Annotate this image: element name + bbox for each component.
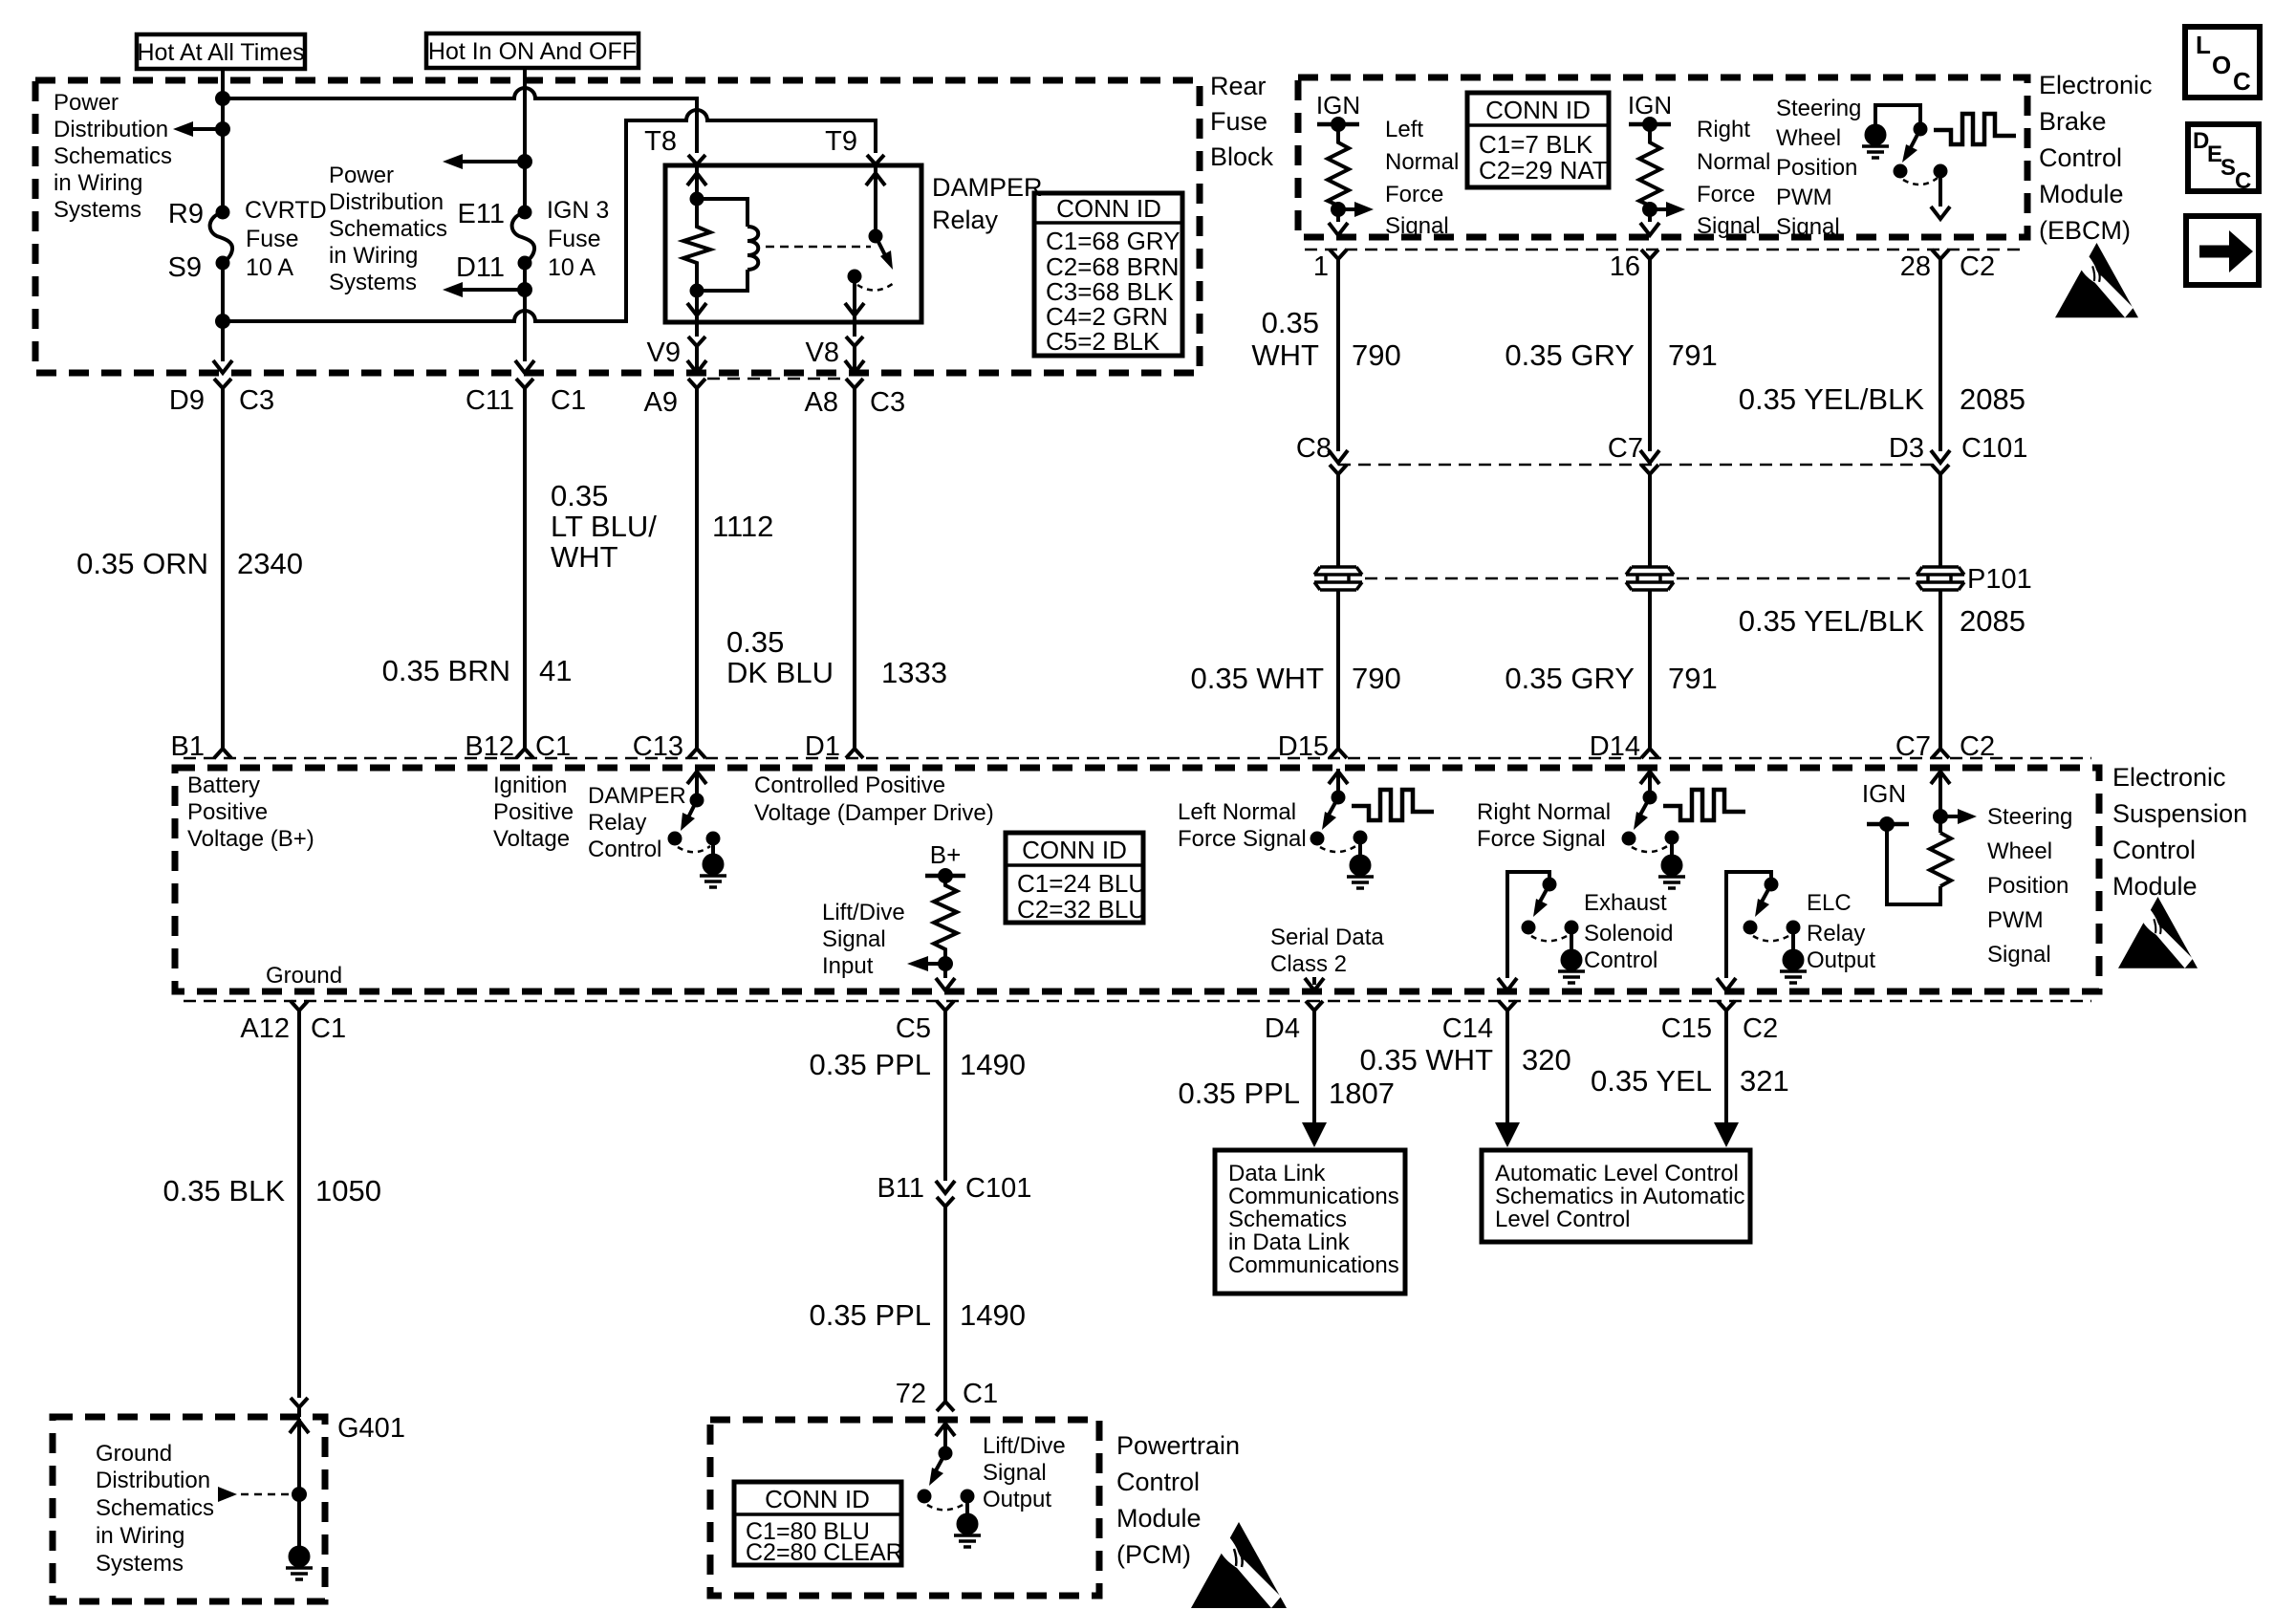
svg-text:Rear: Rear bbox=[1210, 72, 1267, 100]
wire 0.35 ORN 2340 bbox=[221, 396, 225, 741]
label Steering Wheel Position PWM Signal (EBCM) bbox=[1776, 96, 1861, 240]
resistor (left normal force) bbox=[1328, 124, 1349, 222]
svg-text:0.35 BLK: 0.35 BLK bbox=[162, 1174, 285, 1207]
svg-text:Schematics in Automatic: Schematics in Automatic bbox=[1495, 1184, 1744, 1209]
arrow chevron down at border (C5) bbox=[936, 978, 955, 990]
svg-text:IGN: IGN bbox=[1628, 91, 1672, 120]
svg-text:DK BLU: DK BLU bbox=[726, 656, 834, 689]
arrow chevron down at border (pin 16) bbox=[1640, 223, 1659, 235]
label ELC Relay Output bbox=[1807, 890, 1875, 973]
svg-text:Automatic Level Control: Automatic Level Control bbox=[1495, 1161, 1739, 1186]
svg-text:(PCM): (PCM) bbox=[1116, 1540, 1191, 1569]
svg-text:B+: B+ bbox=[930, 840, 962, 869]
svg-text:Relay: Relay bbox=[588, 810, 646, 836]
svg-text:B12: B12 bbox=[465, 731, 514, 762]
svg-text:DAMPER: DAMPER bbox=[588, 783, 686, 809]
resistor (relay internal) bbox=[683, 199, 710, 291]
svg-text:E11: E11 bbox=[458, 199, 505, 229]
svg-text:Normal: Normal bbox=[1385, 149, 1459, 175]
wire T8 into relay bbox=[695, 166, 699, 199]
svg-text:Serial Data: Serial Data bbox=[1270, 925, 1384, 950]
module box Electronic Suspension Control Module (dashed) bbox=[175, 768, 2099, 991]
label Powertrain Control Module (PCM) bbox=[1116, 1431, 1240, 1569]
wire relay pin to V9 bbox=[695, 291, 699, 337]
svg-text:1807: 1807 bbox=[1329, 1077, 1395, 1110]
svg-text:D9: D9 bbox=[169, 385, 205, 416]
connector fork C14 bbox=[1499, 1001, 1516, 1018]
esd symbol (EBCM) bbox=[2055, 243, 2138, 317]
connector fork A12 bbox=[291, 1001, 308, 1018]
fuse IGN 3 10A bbox=[512, 197, 610, 281]
svg-text:A8: A8 bbox=[805, 387, 838, 418]
svg-text:CONN ID: CONN ID bbox=[1056, 194, 1161, 223]
wire serial data stub bbox=[1312, 977, 1316, 985]
svg-text:Force Signal: Force Signal bbox=[1477, 826, 1606, 852]
svg-text:Left Normal: Left Normal bbox=[1178, 799, 1296, 825]
connector C3 dashed link A9-A8 bbox=[707, 378, 846, 381]
svg-text:Control: Control bbox=[2112, 836, 2196, 864]
svg-text:C: C bbox=[2233, 67, 2251, 96]
arrow chevron up (G401) bbox=[290, 1421, 309, 1433]
wire C7 to P101 bbox=[1648, 482, 1652, 567]
svg-text:IGN 3: IGN 3 bbox=[547, 197, 609, 224]
svg-text:1112: 1112 bbox=[712, 510, 773, 543]
svg-text:Solenoid: Solenoid bbox=[1584, 921, 1673, 946]
connector fork T9 bbox=[867, 155, 884, 170]
connector fork D4 bbox=[1306, 1001, 1323, 1018]
wire 791 lower bbox=[1648, 590, 1652, 741]
resistor (steering pwm pull-up) bbox=[1930, 833, 1951, 886]
svg-text:Data Link: Data Link bbox=[1228, 1161, 1326, 1186]
svg-text:Electronic: Electronic bbox=[2039, 71, 2153, 99]
svg-text:Normal: Normal bbox=[1697, 149, 1770, 175]
svg-text:Force: Force bbox=[1385, 182, 1443, 207]
wire steering switch bracket bbox=[1875, 105, 1920, 135]
svg-text:Controlled Positive: Controlled Positive bbox=[754, 772, 945, 798]
arrow chevron down (D3) bbox=[1931, 450, 1950, 463]
svg-text:in Wiring: in Wiring bbox=[96, 1523, 184, 1549]
svg-text:Steering: Steering bbox=[1776, 96, 1861, 121]
inline connector P101 (right) bbox=[1917, 567, 1964, 590]
wire 0.35 LT BLU/WHT 1112 bbox=[695, 396, 699, 741]
arrow chevron down (C8) bbox=[1329, 450, 1348, 463]
arrow chevron down (V8 exit inside relay) bbox=[845, 303, 864, 315]
svg-text:WHT: WHT bbox=[551, 540, 618, 574]
arrow chevron up (72) bbox=[936, 1424, 955, 1436]
svg-text:0.35 YEL/BLK: 0.35 YEL/BLK bbox=[1739, 382, 1925, 416]
arrow chevron up (D15) bbox=[1329, 772, 1348, 784]
svg-text:Control: Control bbox=[1584, 947, 1657, 973]
svg-text:1333: 1333 bbox=[881, 656, 947, 689]
svg-text:C8: C8 bbox=[1296, 433, 1332, 464]
svg-text:CONN ID: CONN ID bbox=[1485, 96, 1591, 124]
svg-text:C7: C7 bbox=[1895, 731, 1931, 762]
conn id table (PCM) bbox=[734, 1482, 903, 1566]
arrow chevron up (T8 entry) bbox=[687, 173, 706, 185]
svg-text:G401: G401 bbox=[337, 1413, 405, 1444]
wire D14 stub bbox=[1648, 769, 1652, 797]
svg-text:72: 72 bbox=[896, 1379, 926, 1409]
connector fork C15 bbox=[1718, 1001, 1735, 1018]
arrow into ALC box (C15) bbox=[1714, 1122, 1739, 1147]
svg-text:Relay: Relay bbox=[932, 206, 999, 234]
svg-text:0.35 ORN: 0.35 ORN bbox=[76, 547, 208, 580]
label DAMPER Relay Control bbox=[588, 783, 686, 862]
svg-text:C1=68 GRY: C1=68 GRY bbox=[1046, 227, 1180, 255]
svg-text:in Wiring: in Wiring bbox=[329, 243, 418, 269]
connector row line ESC bottom bbox=[184, 1000, 2091, 1003]
svg-text:Voltage (Damper Drive): Voltage (Damper Drive) bbox=[754, 800, 994, 826]
svg-text:0.35 PPL: 0.35 PPL bbox=[809, 1048, 931, 1081]
svg-text:1050: 1050 bbox=[315, 1174, 381, 1207]
inline connector P101 (left) bbox=[1314, 567, 1362, 590]
svg-text:Wheel: Wheel bbox=[1987, 838, 2052, 864]
svg-text:320: 320 bbox=[1522, 1043, 1571, 1077]
svg-text:0.35 BRN: 0.35 BRN bbox=[382, 654, 510, 687]
ground (exhaust solenoid) bbox=[1558, 927, 1585, 983]
svg-text:Distribution: Distribution bbox=[54, 117, 168, 142]
connector fork T8 bbox=[688, 155, 705, 170]
svg-text:R9: R9 bbox=[168, 199, 204, 229]
svg-text:Schematics: Schematics bbox=[1228, 1207, 1347, 1232]
ground (left normal force) bbox=[1347, 838, 1374, 888]
pwm waveform (left) bbox=[1352, 790, 1434, 820]
svg-text:Signal: Signal bbox=[1385, 213, 1449, 239]
svg-text:C2: C2 bbox=[1960, 731, 1995, 762]
svg-text:C: C bbox=[2235, 168, 2251, 194]
svg-text:S9: S9 bbox=[168, 252, 202, 283]
arrow left Lift/Dive Signal Input bbox=[907, 956, 945, 971]
connector fork D15 bbox=[1330, 741, 1347, 758]
svg-text:B1: B1 bbox=[171, 731, 205, 762]
svg-text:16: 16 bbox=[1610, 251, 1640, 282]
wire C13 stub bbox=[695, 769, 699, 800]
node junction IGN bar bbox=[1332, 119, 1344, 130]
svg-text:Electronic: Electronic bbox=[2112, 763, 2226, 792]
arrow chevron down at border (C14) bbox=[1498, 978, 1517, 990]
arrow dashed reference (ground distribution) bbox=[218, 1487, 293, 1502]
label Ignition Positive Voltage bbox=[493, 772, 574, 852]
svg-text:A12: A12 bbox=[240, 1013, 290, 1044]
svg-text:C1: C1 bbox=[535, 731, 571, 762]
label Electronic Suspension Control Module bbox=[2112, 763, 2247, 901]
node junction IGN ESC bbox=[1881, 818, 1893, 830]
svg-text:Exhaust: Exhaust bbox=[1584, 890, 1667, 916]
label Lift/Dive Signal Input bbox=[822, 900, 905, 979]
arrow chevron down at border (CVRTD wire) bbox=[213, 360, 232, 373]
svg-text:C1: C1 bbox=[963, 1379, 998, 1409]
svg-text:IGN: IGN bbox=[1316, 91, 1360, 120]
dashed link coil to switch bbox=[766, 246, 871, 249]
wire from Hot At All Times down to fuse CVRTD bbox=[221, 69, 225, 207]
wire 790 lower bbox=[1336, 590, 1340, 741]
svg-text:790: 790 bbox=[1352, 338, 1401, 372]
svg-text:Power: Power bbox=[329, 163, 394, 188]
svg-text:C3: C3 bbox=[870, 387, 905, 418]
relay switch common contact bbox=[850, 272, 860, 282]
connector fork C11 bbox=[516, 379, 533, 396]
node junction at 233,135 bbox=[217, 123, 228, 135]
wire arrow to power distribution reference bbox=[173, 121, 223, 137]
connector P101 dashed row line bbox=[1365, 577, 1914, 580]
svg-text:0.35 YEL: 0.35 YEL bbox=[1591, 1064, 1712, 1098]
svg-text:Lift/Dive: Lift/Dive bbox=[983, 1433, 1066, 1459]
node junction steering input bbox=[1935, 811, 1946, 822]
svg-text:Hot At All Times: Hot At All Times bbox=[137, 39, 304, 66]
node junction ground ref bbox=[293, 1489, 305, 1500]
node junction right sensor bbox=[1644, 204, 1656, 215]
svg-text:Force Signal: Force Signal bbox=[1178, 826, 1307, 852]
arrow chevron down at border (D4) bbox=[1305, 978, 1324, 990]
svg-text:0.35 PPL: 0.35 PPL bbox=[1178, 1077, 1300, 1110]
svg-text:Left: Left bbox=[1385, 117, 1423, 142]
module box PCM (dashed) bbox=[710, 1420, 1099, 1596]
svg-text:C2=80 CLEAR: C2=80 CLEAR bbox=[746, 1539, 903, 1566]
power bar IGN (right sensor) bbox=[1629, 122, 1671, 127]
svg-text:C101: C101 bbox=[965, 1173, 1031, 1204]
svg-text:Relay: Relay bbox=[1807, 921, 1865, 946]
arrow right Left Normal Force Signal bbox=[1338, 202, 1374, 217]
label Electronic Brake Control Module (EBCM) bbox=[2039, 71, 2153, 245]
wire 0.35 PPL 1807 bbox=[1312, 1018, 1316, 1124]
svg-text:Module: Module bbox=[1116, 1504, 1202, 1533]
connector fork B1 bbox=[214, 741, 231, 758]
svg-text:0.35 YEL/BLK: 0.35 YEL/BLK bbox=[1739, 604, 1925, 638]
svg-text:L: L bbox=[2196, 31, 2211, 59]
connector fork 72 (PCM) bbox=[937, 1391, 954, 1411]
svg-text:Fuse: Fuse bbox=[1210, 107, 1267, 136]
svg-text:PWM: PWM bbox=[1987, 907, 2044, 933]
arrow chevron down at border (C15) bbox=[1717, 978, 1736, 990]
esd symbol (PCM) bbox=[1191, 1522, 1287, 1608]
wire 0.35 BLK 1050 bbox=[297, 1018, 301, 1398]
svg-text:D3: D3 bbox=[1889, 433, 1924, 464]
resistor (lift/dive pull-up) bbox=[934, 876, 957, 978]
svg-text:O: O bbox=[2212, 51, 2231, 79]
wire 2085 upper bbox=[1939, 267, 1942, 451]
svg-text:C3: C3 bbox=[239, 385, 274, 416]
wire from Hot In ON And OFF down to fuse IGN3 bbox=[523, 68, 527, 207]
ground (right normal force) bbox=[1658, 838, 1685, 888]
esd symbol (ESC) bbox=[2118, 897, 2198, 968]
wire T9 into relay switch bbox=[874, 166, 877, 236]
svg-text:790: 790 bbox=[1352, 662, 1401, 695]
dashed travel arc bbox=[857, 283, 894, 291]
svg-text:C11: C11 bbox=[466, 385, 514, 416]
svg-text:V9: V9 bbox=[647, 337, 681, 368]
svg-text:Output: Output bbox=[983, 1487, 1051, 1512]
legend box DESC bbox=[2188, 124, 2259, 194]
svg-text:C7: C7 bbox=[1608, 433, 1643, 464]
arrow into ALC box (C14) bbox=[1495, 1122, 1520, 1147]
label Left Normal Force Signal bbox=[1385, 117, 1459, 239]
connector fork D1 bbox=[846, 741, 863, 758]
svg-text:Block: Block bbox=[1210, 142, 1274, 171]
connector row EBCM bottom bbox=[1305, 249, 2022, 251]
arrow into data link box bbox=[1302, 1122, 1327, 1147]
svg-text:WHT: WHT bbox=[1251, 338, 1319, 372]
svg-text:10 A: 10 A bbox=[246, 254, 293, 281]
module box G401 ground distribution (dashed) bbox=[53, 1417, 325, 1601]
svg-text:10 A: 10 A bbox=[548, 254, 596, 281]
connector fork D9 bbox=[214, 379, 231, 396]
svg-text:Signal: Signal bbox=[983, 1460, 1047, 1486]
svg-text:Force: Force bbox=[1697, 182, 1755, 207]
svg-text:Ignition: Ignition bbox=[493, 772, 567, 798]
wire 0.35 PPL 1490 upper bbox=[943, 1018, 947, 1181]
svg-text:Control: Control bbox=[588, 837, 661, 862]
svg-text:C15: C15 bbox=[1661, 1013, 1712, 1044]
svg-text:2085: 2085 bbox=[1960, 604, 2025, 638]
svg-text:Signal: Signal bbox=[822, 926, 886, 952]
svg-text:in Wiring: in Wiring bbox=[54, 170, 142, 196]
node junction at 233,336 bbox=[217, 315, 228, 327]
arrow chevron up (C13) bbox=[687, 772, 706, 784]
switch exhaust solenoid bbox=[1524, 880, 1577, 942]
svg-text:CVRTD: CVRTD bbox=[245, 197, 327, 224]
box Hot At All Times bbox=[137, 34, 305, 69]
svg-text:IGN: IGN bbox=[1862, 779, 1906, 808]
relay box DAMPER Relay bbox=[665, 165, 921, 322]
connector fork pin 1 bbox=[1330, 250, 1347, 267]
node junction IGN bar right bbox=[1644, 119, 1656, 130]
svg-text:Power: Power bbox=[54, 90, 119, 116]
arrow chevron down (B11) bbox=[936, 1181, 955, 1193]
svg-text:C1: C1 bbox=[311, 1013, 346, 1044]
svg-text:A9: A9 bbox=[644, 387, 678, 418]
label Rear Fuse Block bbox=[1210, 72, 1274, 171]
connector fork A8 bbox=[846, 379, 863, 396]
node junction B+ bbox=[940, 870, 951, 881]
relay coil bbox=[697, 199, 758, 291]
svg-text:LT BLU/: LT BLU/ bbox=[551, 510, 657, 543]
svg-text:C2: C2 bbox=[1743, 1013, 1778, 1044]
label Battery Positive Voltage (B+) bbox=[187, 772, 314, 852]
node junction left sensor bbox=[1332, 204, 1344, 215]
svg-text:Suspension: Suspension bbox=[2112, 799, 2247, 828]
svg-text:C2=29 NAT: C2=29 NAT bbox=[1479, 156, 1608, 185]
arrow chevron down (pin 28) bbox=[1931, 207, 1950, 219]
label Serial Data Class 2 bbox=[1270, 925, 1384, 977]
svg-text:Right: Right bbox=[1697, 117, 1750, 142]
label 0.35 LT BLU/ WHT bbox=[551, 479, 657, 574]
svg-text:Right Normal: Right Normal bbox=[1477, 799, 1611, 825]
svg-text:D14: D14 bbox=[1590, 731, 1640, 762]
svg-text:0.35 WHT: 0.35 WHT bbox=[1359, 1043, 1493, 1077]
svg-text:P101: P101 bbox=[1967, 564, 2032, 595]
connector fork A9 bbox=[688, 379, 705, 396]
svg-text:C14: C14 bbox=[1442, 1013, 1493, 1044]
connector fork G401 bbox=[291, 1398, 308, 1417]
svg-text:T8: T8 bbox=[644, 126, 677, 157]
conn id table (rear fuse block) bbox=[1034, 193, 1182, 356]
box Hot In ON And OFF bbox=[426, 33, 639, 68]
svg-text:Schematics: Schematics bbox=[329, 216, 447, 242]
arrow right Right Normal Force Signal bbox=[1650, 202, 1685, 217]
connector row line ESC top bbox=[184, 757, 2091, 760]
ground (ELC relay) bbox=[1780, 927, 1807, 983]
svg-text:Level Control: Level Control bbox=[1495, 1207, 1630, 1232]
svg-text:T9: T9 bbox=[825, 126, 857, 157]
svg-text:Module: Module bbox=[2112, 872, 2198, 901]
label Controlled Positive Voltage (Damper Drive) bbox=[754, 772, 994, 826]
svg-text:Voltage (B+): Voltage (B+) bbox=[187, 826, 314, 852]
svg-text:Output: Output bbox=[1807, 947, 1875, 973]
wire exhaust solenoid output bbox=[1507, 872, 1549, 978]
arrow chevron down (C7) bbox=[1640, 450, 1659, 463]
svg-text:PWM: PWM bbox=[1776, 185, 1832, 210]
svg-text:Signal: Signal bbox=[1987, 942, 2051, 968]
svg-text:Distribution: Distribution bbox=[329, 189, 444, 215]
connector fork pin 28 bbox=[1932, 250, 1949, 267]
connector fork C8 bbox=[1330, 465, 1347, 482]
wire 2085 lower bbox=[1939, 590, 1942, 741]
inline connector P101 (middle) bbox=[1626, 567, 1674, 590]
svg-text:28: 28 bbox=[1900, 251, 1931, 282]
conn id table (ESC) bbox=[1006, 833, 1146, 924]
wire below fuse IGN3 bbox=[523, 263, 527, 361]
svg-text:Voltage: Voltage bbox=[493, 826, 570, 852]
svg-text:Signal: Signal bbox=[1776, 214, 1840, 240]
svg-text:Communications: Communications bbox=[1228, 1252, 1399, 1278]
svg-text:D15: D15 bbox=[1278, 731, 1329, 762]
node junction at 233,103 bbox=[217, 93, 228, 104]
reference box Data Link Communications bbox=[1215, 1150, 1405, 1294]
svg-text:Wheel: Wheel bbox=[1776, 125, 1841, 151]
svg-text:Systems: Systems bbox=[54, 197, 141, 223]
node junction coil top bbox=[692, 194, 703, 205]
wire D3 to P101 bbox=[1939, 482, 1942, 567]
connector fork C7 (ESC) bbox=[1932, 741, 1949, 758]
ground (steering switch EBCM) bbox=[1862, 126, 1889, 159]
legend box arrow bbox=[2186, 216, 2259, 285]
wire inside G401 bbox=[297, 1419, 301, 1548]
pwm waveform (right) bbox=[1663, 790, 1745, 820]
svg-text:Class 2: Class 2 bbox=[1270, 951, 1347, 977]
arrow chevron down at border (pin 1) bbox=[1329, 223, 1348, 235]
svg-text:Module: Module bbox=[2039, 180, 2124, 208]
wire C7 steering input bbox=[1939, 769, 1942, 833]
node junction lift/dive bbox=[940, 958, 951, 969]
label DAMPER Relay bbox=[932, 173, 1043, 234]
wire 0.35 DK BLU 1333 bbox=[853, 396, 856, 741]
arrow chevron up (C7 ESC) bbox=[1931, 772, 1950, 784]
svg-text:41: 41 bbox=[539, 654, 572, 687]
svg-text:0.35 PPL: 0.35 PPL bbox=[809, 1298, 931, 1332]
connector fork B11 bbox=[937, 1197, 954, 1214]
svg-text:Fuse: Fuse bbox=[246, 226, 299, 252]
node junction at 549,169 bbox=[519, 156, 531, 167]
svg-text:791: 791 bbox=[1668, 338, 1718, 372]
label Left Normal Force Signal (ESC) bbox=[1178, 799, 1307, 852]
arrow chevron down at border (V9) bbox=[687, 360, 706, 373]
switch left normal force bbox=[1312, 793, 1366, 853]
wire arrow to power distribution reference (upper) bbox=[443, 154, 525, 169]
node junction coil bottom bbox=[692, 286, 703, 296]
svg-text:0.35: 0.35 bbox=[551, 479, 608, 512]
svg-text:D1: D1 bbox=[805, 731, 840, 762]
svg-text:Input: Input bbox=[822, 953, 874, 979]
svg-text:Fuse: Fuse bbox=[548, 226, 601, 252]
label Power Distribution Schematics in Wiring Systems (left) bbox=[54, 90, 172, 223]
connector fork B12 bbox=[516, 741, 533, 758]
svg-text:Steering: Steering bbox=[1987, 804, 2072, 830]
fuse CVRTD 10A bbox=[210, 197, 327, 281]
arrow chevron down at border (V8) bbox=[845, 360, 864, 373]
svg-text:Systems: Systems bbox=[96, 1551, 184, 1577]
wire 72 stub into PCM bbox=[943, 1421, 947, 1453]
svg-text:2085: 2085 bbox=[1960, 382, 2025, 416]
